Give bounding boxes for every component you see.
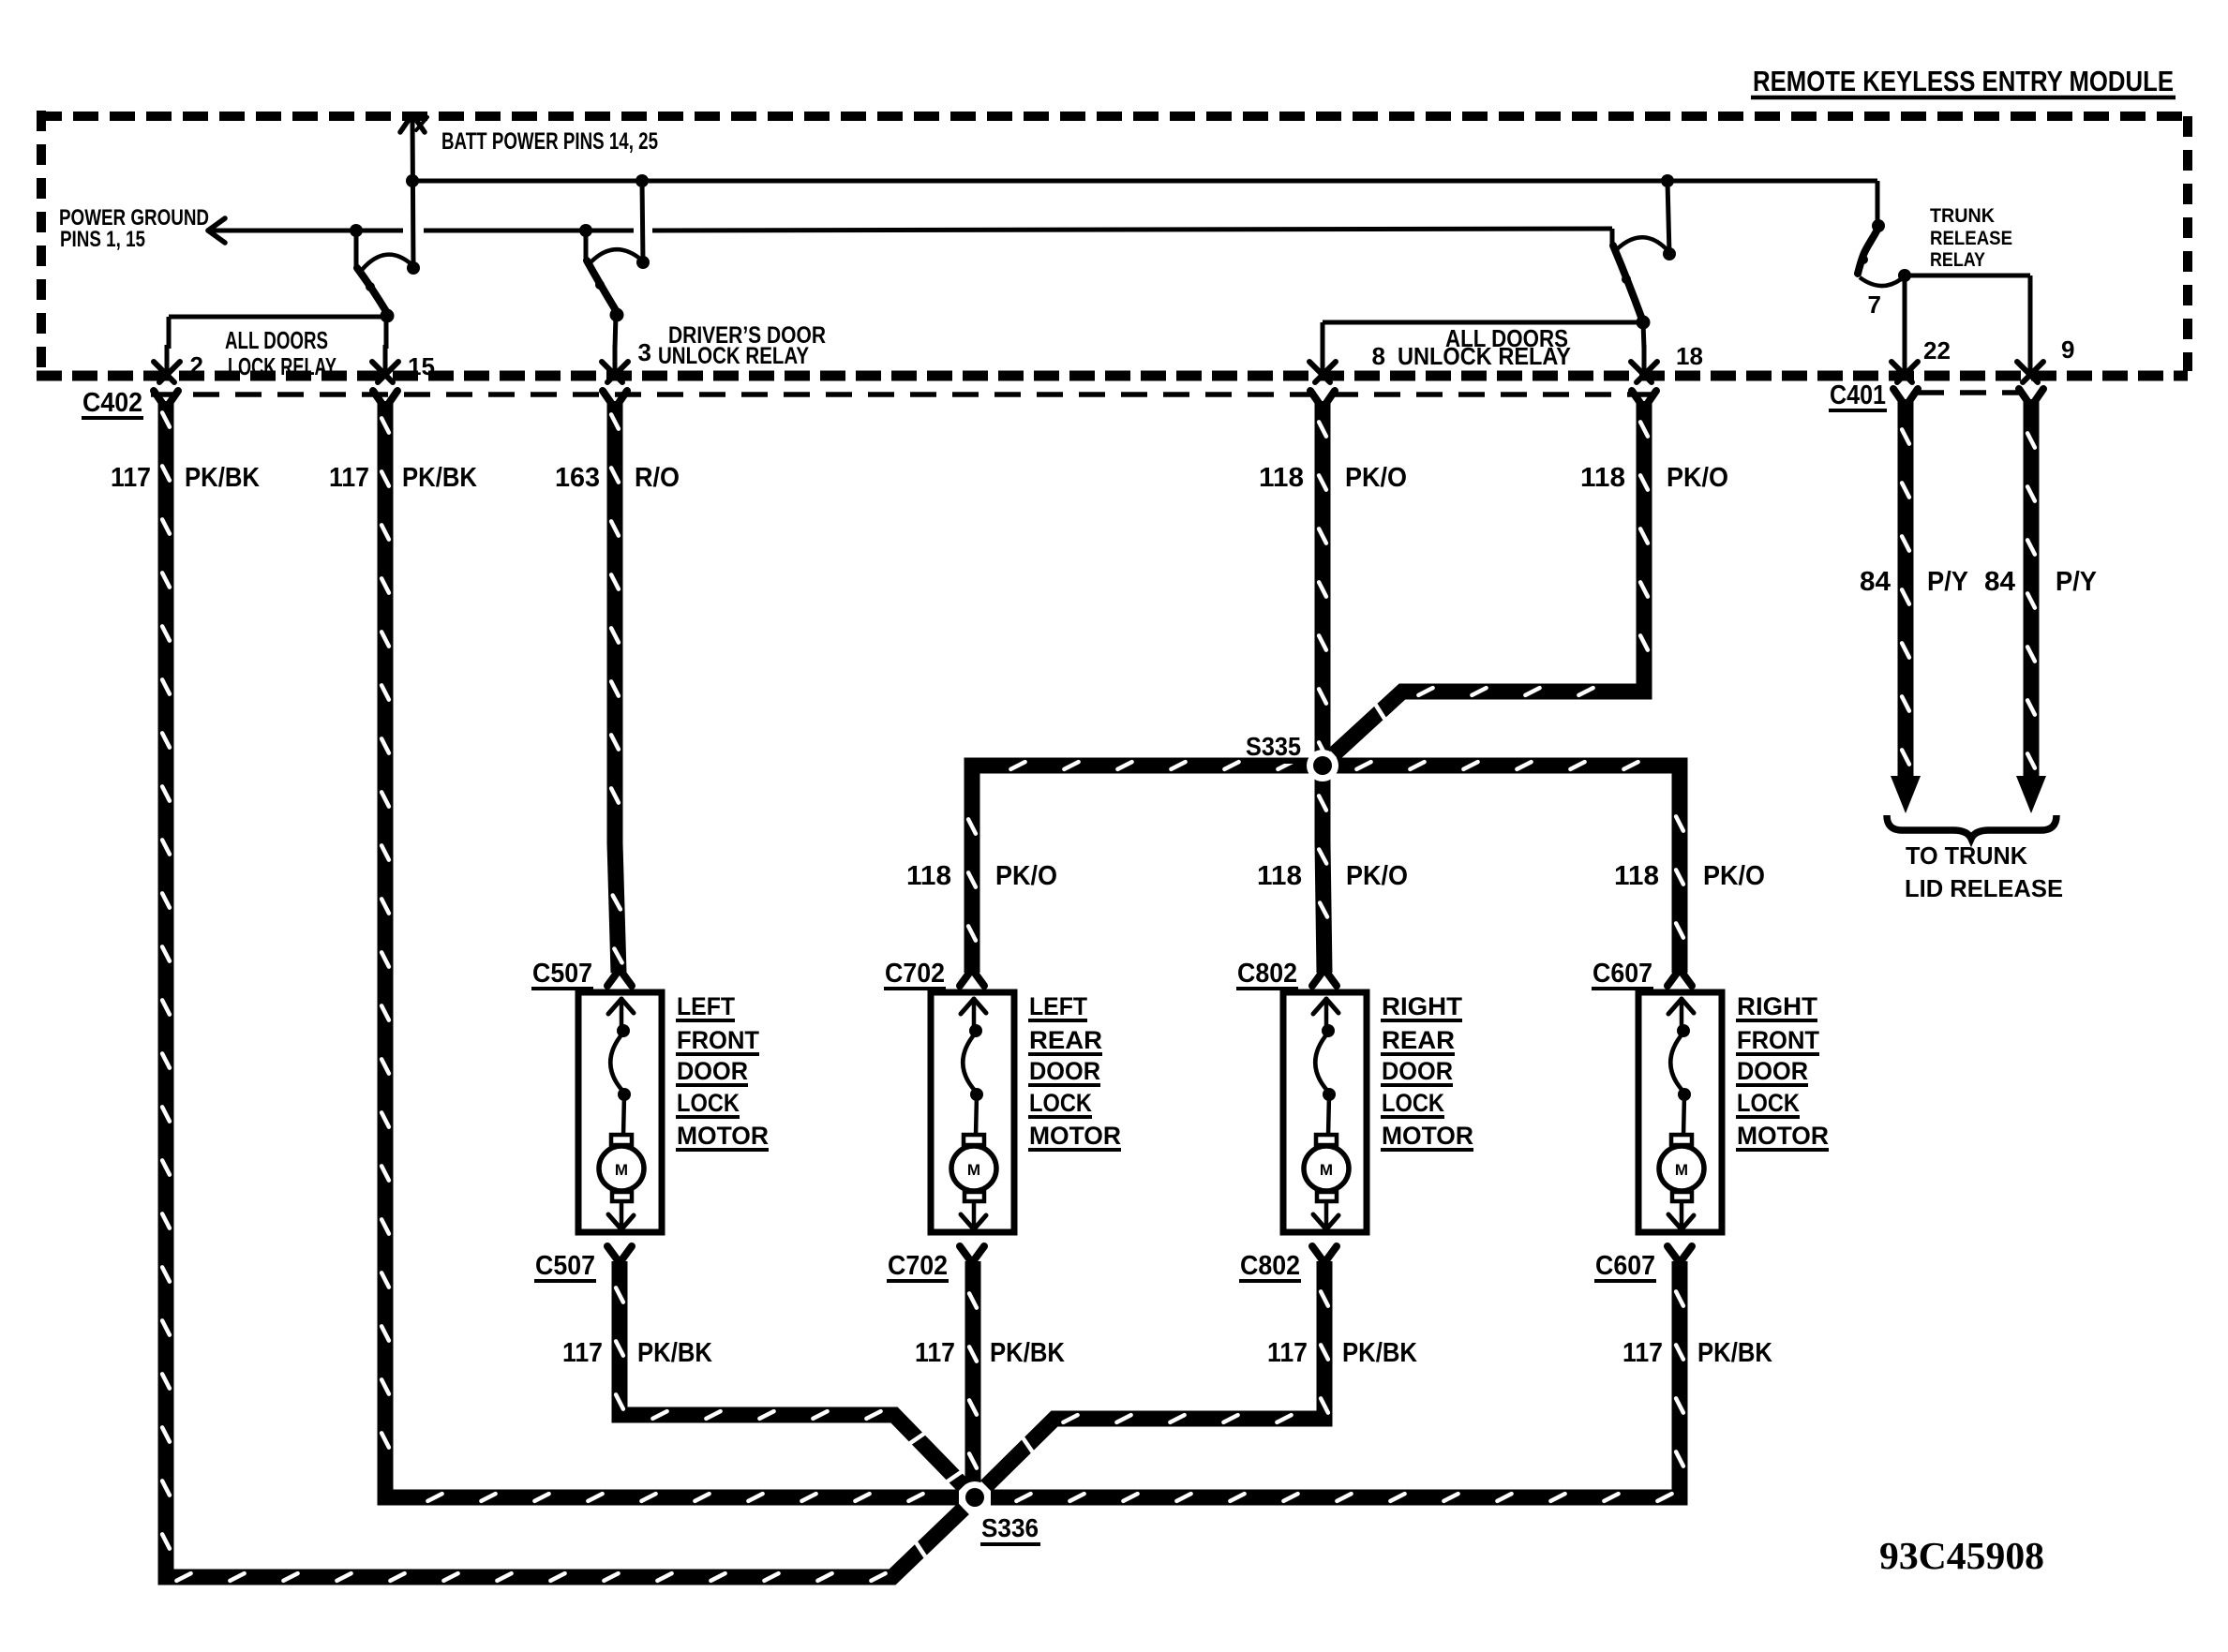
svg-text:3: 3 [638, 338, 651, 366]
wire 117 PK/BK from C607 to S336 [991, 1261, 1680, 1497]
connector arrows at C402 [154, 391, 164, 406]
svg-text:PK/BK: PK/BK [637, 1338, 712, 1368]
wire 118 PK/O from S335 to C702 [972, 766, 1323, 973]
svg-text:PK/BK: PK/BK [1697, 1338, 1772, 1368]
pin 22 [1903, 345, 1907, 374]
svg-text:P/Y: P/Y [1927, 567, 1968, 597]
arrow to trunk lid release (pin 22 wire) [1891, 776, 1921, 813]
svg-text:117: 117 [562, 1338, 603, 1368]
pin 8 [1321, 345, 1325, 374]
svg-text:15: 15 [408, 352, 435, 380]
trunk release relay [1876, 181, 1880, 226]
svg-text:PK/O: PK/O [1346, 861, 1408, 891]
svg-text:RELAY: RELAY [1930, 249, 1985, 271]
svg-text:117: 117 [915, 1338, 955, 1368]
svg-text:PK/O: PK/O [1667, 463, 1728, 493]
wire 118 PK/O from pin 18 to S335 [1334, 401, 1644, 754]
svg-text:18: 18 [1676, 342, 1703, 370]
connector C401 (dashed line) [1918, 390, 2023, 395]
svg-text:118: 118 [1614, 861, 1659, 891]
svg-text:R/O: R/O [635, 463, 680, 493]
wire 163 R/O from pin 3 (C402) to C507 [615, 401, 619, 973]
wire: trunk relay to pin 22 [1903, 275, 1907, 349]
svg-text:FRONT: FRONT [1737, 1026, 1819, 1054]
right rear door lock motor box [1283, 992, 1367, 1232]
svg-text:163: 163 [555, 463, 600, 493]
wire 117 PK/BK from pin 15 (C402) to S336 [385, 401, 959, 1497]
wire 118 PK/O from S335 to C607 [1323, 766, 1680, 973]
wire: relay3 output to pin 8 [1323, 320, 1643, 325]
svg-text:REMOTE KEYLESS ENTRY MODULE: REMOTE KEYLESS ENTRY MODULE [1753, 65, 2174, 97]
left rear door lock motor box [931, 992, 1014, 1232]
svg-text:C507: C507 [535, 1251, 595, 1281]
left front door lock motor box [578, 992, 662, 1232]
wire 117 PK/BK from C802 to S336 [986, 1261, 1324, 1486]
svg-text:8: 8 [1372, 342, 1385, 370]
svg-text:118: 118 [1580, 463, 1625, 493]
svg-text:TRUNK: TRUNK [1930, 205, 1995, 227]
splice S336 [959, 1481, 991, 1513]
svg-text:7: 7 [1868, 290, 1881, 319]
pin 9 [2028, 345, 2033, 374]
svg-text:C607: C607 [1595, 1251, 1655, 1281]
svg-text:117: 117 [111, 463, 151, 493]
arrow to trunk lid release (pin 9 wire) [2016, 776, 2046, 813]
svg-text:BATT POWER PINS 14, 25: BATT POWER PINS 14, 25 [441, 128, 658, 155]
svg-text:93C45908: 93C45908 [1879, 1534, 2044, 1577]
svg-text:M: M [967, 1161, 980, 1179]
svg-text:M: M [1675, 1161, 1688, 1179]
svg-text:C402: C402 [82, 388, 142, 418]
svg-text:117: 117 [1622, 1338, 1663, 1368]
wire 84 P/Y from pin 9 (C401) to trunk lid release [2024, 399, 2040, 778]
svg-text:P/Y: P/Y [2056, 567, 2097, 597]
connector arrows at C401 [1893, 389, 1904, 404]
svg-text:LOCK: LOCK [677, 1089, 740, 1117]
svg-text:84: 84 [1860, 567, 1891, 597]
pin 18 [1643, 322, 1644, 349]
svg-text:MOTOR: MOTOR [1737, 1122, 1829, 1150]
connector C402 (dashed line) [145, 392, 1657, 397]
svg-text:DOOR: DOOR [1029, 1057, 1100, 1085]
svg-text:DOOR: DOOR [1382, 1057, 1453, 1085]
all doors unlock relay [1610, 229, 1615, 245]
wire 118 PK/O from pin 8 through S335 to C802 [1323, 401, 1324, 973]
remote keyless entry module boundary (dashed box) [37, 112, 2188, 121]
svg-text:118: 118 [1257, 861, 1302, 891]
svg-text:DOOR: DOOR [677, 1057, 748, 1085]
svg-text:PK/O: PK/O [995, 861, 1057, 891]
svg-text:M: M [1320, 1161, 1333, 1179]
svg-text:PK/BK: PK/BK [990, 1338, 1065, 1368]
svg-text:C401: C401 [1830, 380, 1886, 410]
svg-text:C607: C607 [1592, 959, 1652, 989]
svg-text:PK/O: PK/O [1345, 463, 1407, 493]
power ground arrow (pins 1, 15) [210, 229, 403, 233]
svg-text:S336: S336 [981, 1513, 1039, 1542]
svg-text:MOTOR: MOTOR [1029, 1122, 1121, 1150]
svg-text:C702: C702 [888, 1251, 948, 1281]
svg-text:FRONT: FRONT [677, 1026, 759, 1054]
right front door lock motor box [1638, 992, 1722, 1232]
svg-text:C802: C802 [1237, 959, 1297, 989]
svg-text:2: 2 [190, 351, 203, 380]
svg-text:DOOR: DOOR [1737, 1057, 1808, 1085]
wire 117 PK/BK from C507 to S336 [620, 1261, 964, 1486]
splice S335 [1307, 750, 1338, 781]
svg-text:118: 118 [1259, 463, 1304, 493]
pin 2 [165, 345, 170, 374]
svg-text:PK/BK: PK/BK [185, 463, 260, 493]
svg-text:LEFT: LEFT [1029, 992, 1087, 1020]
svg-text:MOTOR: MOTOR [1382, 1122, 1473, 1150]
svg-text:PK/O: PK/O [1703, 861, 1765, 891]
pin 3 [615, 315, 616, 349]
svg-text:LOCK: LOCK [1029, 1089, 1092, 1117]
svg-text:C802: C802 [1240, 1251, 1300, 1281]
wire 117 PK/BK from C702 to S336 [965, 1261, 981, 1489]
brace under trunk release arrows [1887, 815, 2056, 839]
svg-text:RIGHT: RIGHT [1737, 992, 1818, 1020]
pin 15 [384, 317, 389, 349]
svg-text:LOCK RELAY: LOCK RELAY [228, 352, 336, 380]
svg-text:C702: C702 [885, 959, 945, 989]
svg-text:S335: S335 [1246, 732, 1301, 761]
svg-text:REAR: REAR [1029, 1026, 1102, 1054]
svg-text:LID RELEASE: LID RELEASE [1905, 874, 2063, 902]
svg-text:117: 117 [329, 463, 369, 493]
svg-text:117: 117 [1267, 1338, 1308, 1368]
svg-text:UNLOCK RELAY: UNLOCK RELAY [658, 343, 809, 369]
all doors lock relay [350, 224, 363, 237]
wire 84 P/Y from pin 22 (C401) to trunk lid release [1898, 399, 1914, 778]
driver&#39;s door unlock relay [579, 224, 592, 237]
svg-text:TO TRUNK: TO TRUNK [1906, 841, 2027, 870]
svg-text:PINS 1, 15: PINS 1, 15 [60, 227, 145, 252]
svg-text:M: M [615, 1161, 628, 1179]
svg-text:PK/BK: PK/BK [1342, 1338, 1417, 1368]
wire: trunk relay to pin 9 [1905, 274, 2030, 278]
svg-text:MOTOR: MOTOR [677, 1122, 769, 1150]
batt power rail [412, 179, 1877, 184]
svg-text:LEFT: LEFT [677, 992, 735, 1020]
svg-text:RIGHT: RIGHT [1382, 992, 1463, 1020]
wire: relay1 output to pin 2 [169, 315, 387, 320]
svg-text:84: 84 [1984, 567, 2015, 597]
svg-text:22: 22 [1923, 336, 1951, 365]
svg-text:ALL DOORS: ALL DOORS [225, 326, 328, 354]
svg-text:REAR: REAR [1382, 1026, 1455, 1054]
svg-text:UNLOCK RELAY: UNLOCK RELAY [1398, 342, 1571, 370]
svg-text:PK/BK: PK/BK [402, 463, 477, 493]
svg-text:LOCK: LOCK [1382, 1089, 1444, 1117]
svg-text:9: 9 [2061, 335, 2074, 364]
svg-text:LOCK: LOCK [1737, 1089, 1800, 1117]
wire 117 PK/BK from pin 2 (C402) to S336 via bottom left [166, 401, 964, 1577]
wire hatch marks [162, 412, 170, 426]
svg-text:C507: C507 [532, 959, 592, 989]
svg-text:118: 118 [906, 861, 951, 891]
svg-text:RELEASE: RELEASE [1930, 228, 2012, 249]
batt power arrow (pins 14, 25) [412, 118, 413, 268]
